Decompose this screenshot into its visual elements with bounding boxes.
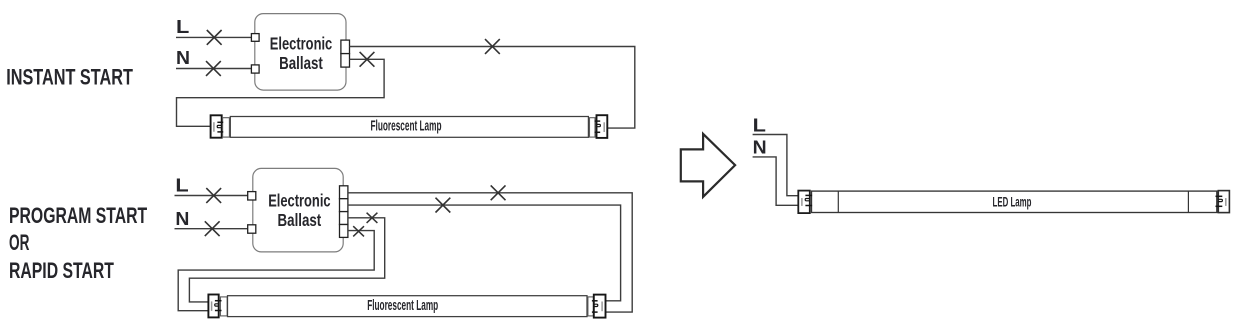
cut mark X on U2 output wire 1 [491,185,506,200]
LAMP3 right pin bottom [1216,205,1223,207]
wire N input (diagram 1) [176,68,251,70]
LAMP1 right pin top [595,120,601,122]
LAMP2 right cap electrode bar [601,302,603,312]
terminal U1 pin L (input left top) [251,34,259,42]
LAMP2 left filament [215,304,220,306]
terminal U2 pin N (input left bottom) [248,225,256,233]
svg-text:N: N [175,209,189,229]
electronic ballast U1 (instant start) [255,14,346,91]
fluorescent lamp LAMP1 left end cap [211,115,222,137]
wire N input (diagram 2) [175,228,248,230]
wire U2 output 4 to lamp2 left cap lower pin [178,231,374,311]
LAMP3 left pin top [805,194,812,196]
LAMP1 left pin bottom [217,131,223,133]
fluorescent lamp LAMP1 tube body [230,117,588,138]
wire L input (diagram 1) [176,36,251,38]
LAMP3 tube divider right [1187,191,1189,212]
wire N to LED lamp cap [753,157,799,205]
terminal U2 output pin 3 [340,212,348,225]
LAMP3 right cap electrode bar [1225,198,1227,206]
LAMP2 right filament [593,304,598,306]
svg-text:Electronic: Electronic [270,33,333,53]
cut mark X on L input wire (diagram 2) [206,188,221,203]
LAMP3 tube divider left [837,191,839,212]
wire U2 output 2 to lamp2 right cap upper pin [348,205,621,301]
LAMP2 right pin top [592,300,598,302]
cut mark X on L input wire (diagram 1) [207,30,222,45]
svg-text:N: N [753,137,767,157]
LAMP2 left cap electrode bar [211,301,213,311]
LAMP2 left pin bottom [215,310,222,312]
LAMP1 left pin top [217,121,223,123]
svg-text:PROGRAM START: PROGRAM START [9,203,147,228]
cut mark X on N input wire (diagram 2) [205,221,220,236]
LAMP3 left cap electrode bar [801,198,803,206]
LAMP1 right tube end segment [590,118,596,137]
LAMP2 right tube end segment [588,297,594,316]
terminal U2 output pin 4 [340,225,348,238]
svg-text:Ballast: Ballast [278,210,322,230]
terminal U2 output pin 2 [340,199,348,212]
label Electronic Ballast U1 [270,33,333,73]
terminal U1 output pin 2 (right bottom) [341,54,350,68]
fluorescent lamp LAMP1 right end cap [597,115,608,138]
fluorescent lamp LAMP2 tube body [228,296,588,317]
LAMP1 right filament [596,124,601,126]
cut mark X on U2 output wire 4 [353,226,364,236]
svg-text:Fluorescent Lamp: Fluorescent Lamp [367,298,438,314]
LAMP3 right filament [1218,199,1223,201]
terminal U2 pin L (input left top) [248,192,256,200]
svg-text:Fluorescent Lamp: Fluorescent Lamp [371,119,442,135]
fluorescent lamp LAMP2 right end cap [594,295,606,318]
LAMP2 right pin bottom [592,311,598,313]
terminal U1 pin N (input left bottom) [251,65,259,73]
svg-text:OR: OR [9,230,29,255]
cut mark X on N input wire (diagram 1) [206,61,221,76]
LAMP3 left pin bottom [805,205,812,207]
LAMP1 left cap electrode bar [213,122,215,132]
LAMP1 left filament [217,125,222,127]
terminal U1 output pin 1 (right top) [341,40,350,54]
cut mark X on U2 output wire 2 [436,198,451,213]
LED lamp LAMP3 tube body [812,191,1217,212]
LED lamp LAMP3 right end cap [1218,191,1229,213]
label PROGRAM START OR RAPID START [9,203,147,283]
LAMP1 left tube end segment [223,118,230,137]
LAMP3 left filament [805,199,810,201]
electronic ballast U2 (program/rapid start) [253,168,343,252]
label Electronic Ballast U2 [268,191,331,230]
wire U1 output 2 to lamp left cap [177,59,385,126]
LED lamp LAMP3 left end cap [798,191,810,214]
terminal U2 output pin 1 [340,186,348,199]
cut mark X on output wire 1 (diagram 1) [485,39,500,54]
cut mark X on output wire 2 (diagram 1) [360,52,375,67]
wire L to LED lamp cap [753,135,799,196]
LAMP2 left tube end segment [220,297,227,316]
svg-text:N: N [176,48,190,68]
cut mark X on U2 output wire 3 [367,213,378,223]
svg-text:L: L [175,176,188,196]
wire L input (diagram 2) [175,195,248,197]
svg-text:L: L [176,17,189,37]
wire U2 output 1 to lamp2 right cap lower pin [348,193,632,312]
LAMP2 left pin top [215,300,222,302]
svg-text:INSTANT START: INSTANT START [6,64,133,89]
fluorescent lamp LAMP2 left end cap [208,295,218,318]
LAMP3 right pin top [1216,195,1223,197]
svg-text:L: L [753,116,766,136]
svg-text:LED Lamp: LED Lamp [993,195,1032,210]
conversion arrow [681,134,735,197]
wire U2 output 3 to lamp2 left cap upper pin [189,218,384,302]
wire U1 output 1 to lamp right cap [350,47,635,129]
svg-text:RAPID START: RAPID START [9,258,114,283]
svg-text:Electronic: Electronic [268,191,331,211]
LAMP1 right pin bottom [595,131,601,133]
svg-text:Ballast: Ballast [279,53,323,73]
LAMP1 right cap electrode bar [603,122,605,132]
